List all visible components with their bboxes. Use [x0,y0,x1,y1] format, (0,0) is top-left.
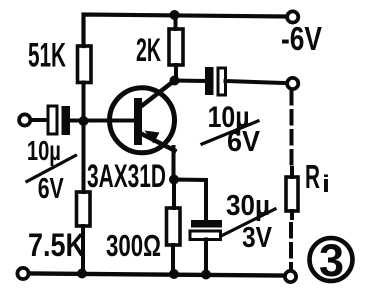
wire 2K stub bottom [174,65,178,80]
slash label left 10u/6V [27,156,76,182]
capacitor C1 10u plate left (hollow) [48,106,57,134]
wire emitter vertical [172,147,176,180]
wire bottom rail [30,274,285,276]
circled 3 badge [310,238,353,281]
node rail-7.5K junction [77,269,87,279]
resistor R 7.5K body [77,192,91,226]
resistor R 51K body [78,46,92,83]
svg-text:3V: 3V [242,222,273,254]
wire collector to C2 [175,79,205,84]
svg-text:3AX31D: 3AX31D [87,158,166,194]
resistor R 300ohm body [167,208,181,245]
resistor Ri body [286,177,298,211]
svg-text:-6V: -6V [281,20,322,57]
wire dashed output top [290,91,294,170]
wire dashed output bottom [289,224,293,268]
transistor Q1 emitter line [139,133,175,151]
wire 300ohm to rail [171,245,175,274]
node base junction [79,116,89,126]
resistor R 2K body [169,29,183,65]
wire Ri stub bottom [290,211,294,218]
capacitor C3 30u plate top (solid) [191,220,222,228]
capacitor C2 10u plate left (solid) [205,67,214,95]
svg-text:6V: 6V [227,126,261,158]
node collector junction [170,76,180,86]
terminal input [19,114,30,125]
transistor Q1 base bar [134,98,142,145]
terminal bottom-left [17,268,28,279]
wire emitter to 30u branch [174,180,206,221]
svg-text:3: 3 [319,235,344,286]
wire base [70,119,134,123]
slash label right 10u/6V [202,121,258,144]
transistor Q1 emitter arrow [145,131,160,144]
wire bias bottom [81,226,85,274]
slash label 30u/3V [223,209,275,235]
capacitor C3 30u plate bottom (hollow) [190,231,221,240]
wire Ri stub top [290,168,294,177]
svg-text:10µ: 10µ [27,135,61,166]
svg-text:i: i [322,171,330,198]
wire bias mid [82,83,86,193]
node emitter junction [169,175,179,185]
svg-text:30µ: 30µ [226,190,270,222]
node rail-300ohm junction [169,269,179,279]
svg-text:R: R [305,158,320,195]
svg-text:2K: 2K [136,32,161,68]
node rail-2K junction [170,10,180,20]
wire top rail [84,15,286,47]
terminal bottom-right [285,271,296,282]
transistor Q1 circle [110,88,175,153]
svg-text:300Ω: 300Ω [106,228,161,263]
wire 30u to rail [204,240,208,275]
terminal output [287,78,298,89]
capacitor C2 10u plate right (hollow) [218,68,226,95]
transistor Q1 collector line [139,81,175,109]
capacitor C1 10u plate right (solid) [62,106,71,135]
wire emitter to 300ohm [172,180,176,208]
terminal -6V [287,11,298,22]
wire input [32,118,48,122]
wire 2K stub top [174,15,178,29]
svg-text:6V: 6V [38,173,64,205]
svg-text:51K: 51K [28,37,66,75]
node rail-30u junction [201,270,211,280]
svg-text:7.5K: 7.5K [28,227,85,263]
wire C2 to output terminal [226,81,286,83]
